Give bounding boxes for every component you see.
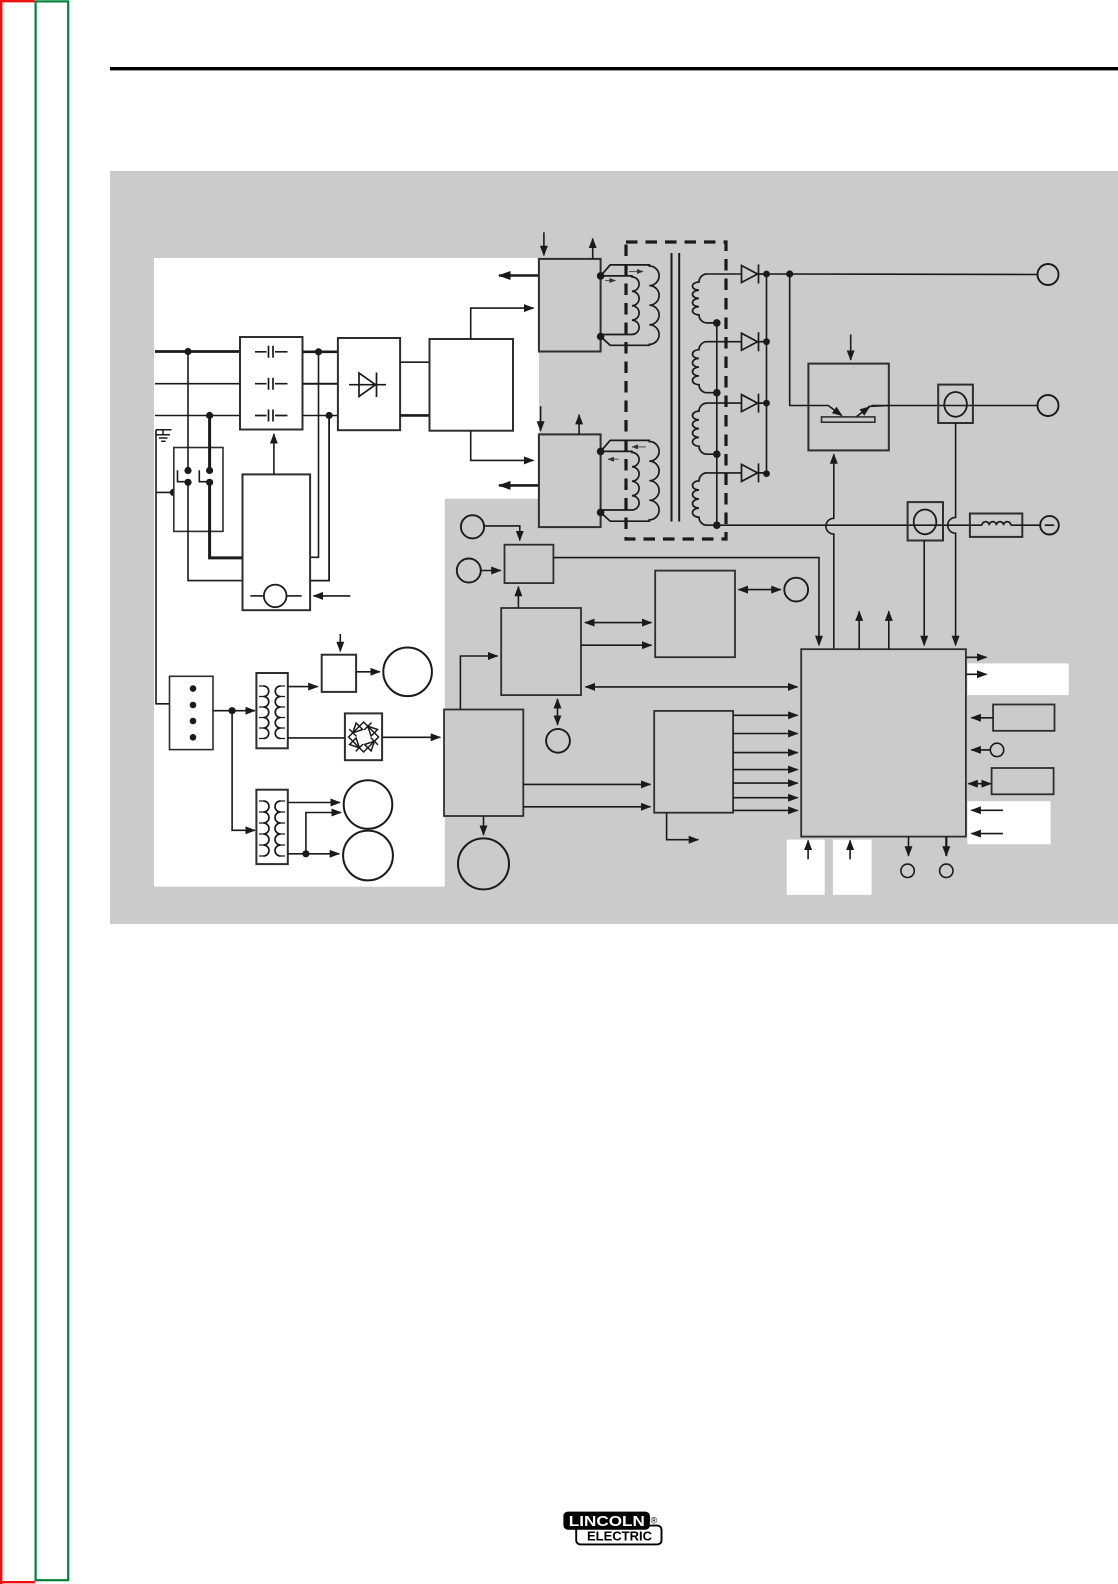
- wire strip to aux transformer: [213, 710, 232, 712]
- switch board block: [430, 339, 514, 431]
- PWM signal wire 3: [733, 752, 798, 754]
- wire branch to reconnect switch: [156, 491, 173, 493]
- arrow into T2: [232, 710, 255, 712]
- fan circle 2: [458, 838, 509, 889]
- fan circle: [383, 648, 432, 697]
- auxiliary transformer T2 box: [256, 673, 287, 748]
- output choke coil: [982, 522, 1011, 526]
- secondary tap line 4: [707, 472, 742, 474]
- Lincoln Electric logo - ELECTRIC box: [576, 1526, 661, 1545]
- power supply board D: [444, 710, 523, 817]
- wire L3 drop to switch: [208, 416, 211, 471]
- wire DC+ drop to breaker: [310, 352, 318, 558]
- wire ground bus down left side: [156, 430, 180, 704]
- arrow into contactor from right: [314, 595, 351, 597]
- input reconnect switch box: [174, 448, 223, 532]
- wire to chopper block: [790, 274, 809, 406]
- wire input phase L3: [155, 415, 240, 417]
- control PC board block: [801, 649, 966, 836]
- primary 2 dots: [597, 448, 605, 456]
- bidirectional link interface-connector: [739, 589, 781, 591]
- CT1 circle: [944, 392, 967, 417]
- wire pot A to mode box: [484, 526, 520, 541]
- switch contact blade 1: [178, 470, 185, 481]
- secondary tap line 1: [707, 273, 742, 275]
- cathode bus nodes: [763, 271, 770, 278]
- ground symbol: [156, 430, 172, 441]
- main transformer primary 1: [601, 265, 660, 345]
- secondary center-tap bus: [716, 323, 718, 525]
- main transformer primary 2: [601, 440, 660, 521]
- wire C to interface: [581, 644, 652, 646]
- option circle: [990, 743, 1003, 756]
- node DC- tap: [326, 412, 333, 419]
- node L3-A: [206, 412, 213, 419]
- wire switch out thick: [210, 482, 243, 558]
- wire DC- drop to breaker: [310, 416, 329, 581]
- wire switchboard to IGBT1 gate: [471, 308, 534, 339]
- arrow out IGBT2 top: [578, 415, 580, 435]
- arrow into IGBT1 top: [543, 232, 545, 255]
- wire filter to rectifier L3: [303, 415, 339, 417]
- bridge diamond: [349, 722, 379, 752]
- arrow up into control bottom 1: [807, 840, 809, 859]
- wire switchboard to IGBT2 gate: [471, 431, 534, 461]
- PWM signal wire 2: [733, 733, 798, 735]
- arrow out control right 2: [966, 673, 987, 675]
- svg-text:ELECTRIC: ELECTRIC: [587, 1530, 652, 1544]
- bridge diode 2: [364, 723, 377, 736]
- PWM box E: [654, 711, 733, 813]
- output choke box: [970, 514, 1022, 537]
- wire chopper to terminal 2: [889, 405, 1038, 407]
- white label box right 2: [967, 801, 1050, 844]
- wire mode box to control board: [553, 558, 819, 646]
- transformer core lines: [671, 253, 673, 522]
- capacitor C2: [255, 378, 288, 390]
- wire CT2 sense drop: [923, 541, 925, 646]
- wire D to C: [460, 656, 497, 710]
- bridge diode 1: [349, 723, 362, 736]
- contactor coil circle: [264, 585, 287, 608]
- arrow out IGBT1 top: [592, 239, 594, 259]
- wire rectifier to switchboard upper: [400, 361, 429, 363]
- wire center-tap output: [717, 524, 982, 526]
- primary 1 dots: [597, 272, 605, 280]
- output chopper block: [808, 364, 888, 451]
- wire IGBT1 feedback arrow: [499, 274, 539, 277]
- bidirectional bus C-interface: [585, 622, 652, 624]
- output terminal circle 2: [1038, 395, 1059, 416]
- green margin crop box: [36, 1, 69, 1580]
- arrow into control right 3: [971, 809, 1003, 811]
- bidirectional link C-thermistor: [557, 699, 559, 725]
- output diode D4: [742, 463, 767, 482]
- wire switch out thin: [188, 482, 243, 580]
- wire D to PWM upper: [523, 783, 650, 785]
- arrow fan supply to fan: [356, 671, 380, 673]
- indicator circle 2: [940, 864, 953, 877]
- IGBT module 2 block: [539, 434, 601, 527]
- T2 windings: [264, 686, 269, 739]
- node L1-A: [184, 348, 191, 355]
- arrow circle to control: [971, 749, 990, 751]
- current sensor CT1 box: [938, 385, 973, 423]
- center-tap nodes: [713, 319, 721, 327]
- arrow option1 to control: [971, 717, 993, 719]
- arrow down control bottom 1: [908, 837, 910, 856]
- arrow into control right 4: [971, 833, 1003, 835]
- secondary winding 2: [693, 342, 717, 393]
- wire filter to rectifier L1: [303, 350, 339, 353]
- diode cathode bus: [766, 274, 768, 474]
- outlined option box 2: [992, 768, 1054, 794]
- arrow out control top 1: [858, 611, 860, 649]
- wire CT1 sense drop with hop: [948, 423, 956, 645]
- arrow T3 to meter 1 upper: [288, 802, 340, 804]
- auxiliary transformer T3 box: [256, 790, 287, 864]
- terminal dots: [190, 685, 197, 692]
- white label box bottom 1: [787, 840, 825, 895]
- Lincoln Electric logo - LINCOLN box: [564, 1512, 650, 1529]
- header rule: [110, 67, 1118, 70]
- PWM signal wire 4: [733, 769, 798, 771]
- remote connector circle: [784, 578, 808, 602]
- input filter capacitor block: [240, 337, 303, 430]
- wire positive output: [767, 273, 1038, 276]
- capacitor C1: [255, 346, 288, 358]
- wire T3 lower tap: [288, 853, 306, 855]
- chopper transistor left lead: [808, 406, 842, 416]
- thermistor circle: [546, 729, 570, 753]
- current direction arrows primary 1: [629, 271, 643, 273]
- wire D to PWM lower: [523, 806, 650, 808]
- CT2 circle: [914, 510, 937, 535]
- white diagram background (L-shape): [154, 258, 539, 887]
- node on switch box edge: [170, 489, 177, 496]
- arrow contactor to filter caps: [273, 434, 275, 474]
- node DC+ tap: [315, 348, 322, 355]
- wire filter to rectifier L2: [303, 383, 339, 385]
- output diode D1: [742, 265, 767, 284]
- diode D-rect symbol: [349, 373, 386, 398]
- output diode D3: [742, 394, 767, 413]
- arrow up into control bottom 2: [849, 840, 851, 859]
- white label box right 1: [967, 663, 1068, 695]
- arrow D to fan2: [483, 816, 485, 835]
- circuit breaker / contactor block: [243, 474, 311, 610]
- secondary winding 1: [693, 274, 717, 323]
- current sensor CT2 box: [908, 502, 943, 540]
- remote pot circle B: [457, 559, 481, 583]
- aux bridge rectifier box: [345, 713, 382, 760]
- secondary winding 4: [693, 473, 717, 525]
- wire T2 to bridge: [288, 737, 345, 739]
- wire L1 drop to switch: [187, 352, 189, 471]
- svg-text:LINCOLN: LINCOLN: [569, 1514, 645, 1530]
- arrow T2 to fan supply box: [288, 686, 318, 688]
- main transformer dashed boundary: [626, 242, 726, 539]
- red margin crop box: [0, 0, 35, 1584]
- arrow out control top 2: [888, 611, 890, 649]
- PWM signal wire 5: [733, 782, 798, 784]
- protection box C: [501, 608, 581, 695]
- meter circle 1: [344, 780, 393, 829]
- PWM signal wire 7: [733, 809, 798, 811]
- remote pot circle A: [461, 515, 484, 538]
- interface box: [655, 571, 735, 658]
- PWM signal wire 1: [733, 714, 798, 716]
- mode select box: [505, 545, 554, 583]
- svg-text:®: ®: [651, 1515, 658, 1525]
- bridge diode 3: [350, 738, 363, 751]
- arrow C to mode box: [517, 587, 519, 608]
- wire choke to terminal 3: [1011, 524, 1040, 526]
- arrow to meter 2: [306, 853, 339, 855]
- node positive out: [786, 270, 793, 277]
- input rectifier block: [338, 338, 400, 430]
- control terminal strip box: [170, 676, 214, 749]
- arrow bridge to power supply board: [382, 736, 440, 738]
- wire and arrow into T3: [232, 711, 255, 831]
- wire input phase L1: [155, 350, 240, 353]
- output terminal circle 1: [1038, 264, 1059, 285]
- white label box bottom 2: [833, 840, 872, 895]
- current direction arrows primary 2: [632, 446, 646, 448]
- arrow into fan supply top: [339, 634, 341, 651]
- PWM bottom dangling arrow: [667, 813, 699, 840]
- wire input phase L2: [155, 383, 240, 385]
- output terminal circle 3 (negative): [1040, 516, 1059, 535]
- T3 windings: [264, 801, 270, 856]
- secondary tap line 2: [707, 341, 742, 343]
- IGBT module 1 block: [539, 259, 601, 352]
- meter circle 2: [343, 831, 393, 881]
- arrow to meter 1 lower: [306, 813, 341, 854]
- wire chopper gate from control (with hop): [826, 454, 834, 649]
- fan supply box: [322, 655, 356, 692]
- gray diagram panel: [110, 171, 1118, 924]
- wire rectifier to switchboard lower: [400, 414, 429, 417]
- arrow out control right 1: [966, 656, 987, 658]
- arrow down control bottom 2: [945, 837, 947, 856]
- outlined option box 1: [993, 705, 1054, 731]
- switch contact blade 2: [199, 470, 206, 481]
- arrow into IGBT2 top: [540, 406, 542, 431]
- negative sign: [1045, 524, 1054, 526]
- node aux feed: [229, 707, 236, 714]
- bidirectional bus C-controlboard: [586, 686, 798, 688]
- bridge diode 4: [365, 738, 378, 751]
- switch pole dots: [184, 467, 191, 474]
- chopper transistor base bar: [822, 417, 875, 422]
- bidirectional control-option2: [968, 783, 991, 785]
- indicator circle 1: [901, 864, 914, 877]
- output diode D2: [742, 332, 767, 351]
- capacitor C3: [255, 410, 288, 422]
- secondary tap line 3: [707, 402, 742, 404]
- arrow pot B to mode box: [481, 570, 501, 572]
- PWM signal wire 6: [733, 797, 798, 799]
- wire IGBT2 feedback arrow: [499, 484, 539, 487]
- node T3 tap: [302, 850, 309, 857]
- chopper transistor right lead: [857, 407, 870, 417]
- arrow into chopper top: [850, 335, 852, 361]
- secondary winding 3: [693, 403, 717, 454]
